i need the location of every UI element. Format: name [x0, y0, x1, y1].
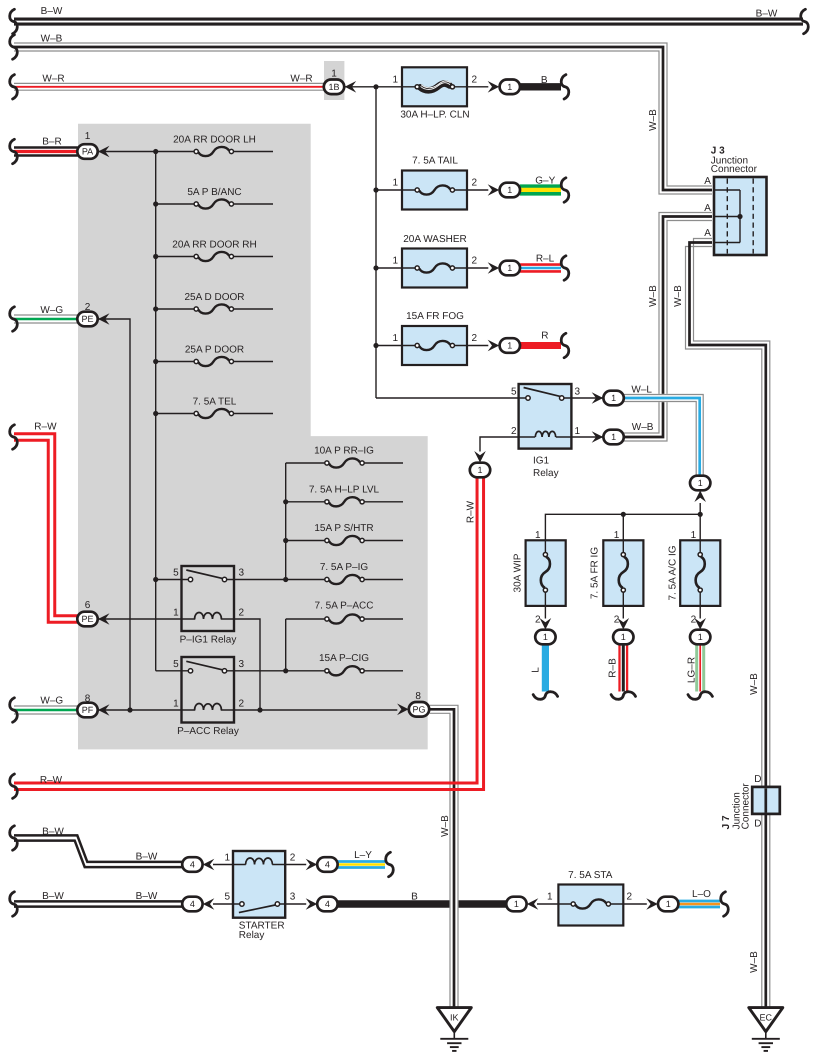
svg-text:7. 5A P–ACC: 7. 5A P–ACC: [315, 601, 374, 612]
ground EC: [749, 1008, 783, 1051]
connector oval PA: [77, 144, 97, 159]
svg-text:W–B: W–B: [673, 285, 684, 307]
arrow into 1B: [345, 81, 357, 93]
connector oval PE 2: [77, 312, 97, 327]
connector oval W-L: [603, 391, 623, 406]
connector oval L: [535, 630, 555, 645]
connector oval LG-R: [690, 630, 710, 645]
svg-text:1: 1: [698, 632, 703, 642]
svg-text:25A D DOOR: 25A D DOOR: [184, 292, 244, 303]
svg-text:15A P S/HTR: 15A P S/HTR: [314, 523, 373, 534]
svg-text:2: 2: [472, 333, 478, 344]
wire B-W into STARTER pin1 (jogged): [14, 835, 182, 867]
svg-text:1: 1: [392, 74, 398, 85]
wire W-L from IG1 pin3 connector down to A-C IG node: [624, 395, 703, 477]
svg-text:L–O: L–O: [692, 889, 711, 900]
svg-text:1: 1: [392, 178, 398, 189]
svg-text:A: A: [704, 203, 711, 214]
P-IG1 relay switch: [186, 570, 223, 579]
svg-text:P–ACC Relay: P–ACC Relay: [177, 726, 239, 737]
wire-end squiggle LG-R: [688, 692, 712, 700]
arrow into A-C IG output connector: [694, 618, 706, 630]
connector ovals 4 right: [317, 857, 337, 872]
gray fuse-panel L-shape: [78, 124, 428, 750]
wire P-ACC pin2 to PG: [221, 709, 398, 711]
wire-end curl B-W left row2: [10, 892, 18, 916]
svg-text:R–W: R–W: [40, 775, 63, 786]
svg-text:W–B: W–B: [440, 815, 451, 837]
STARTER relay switch: [239, 905, 275, 913]
connector oval W-B: [603, 430, 623, 445]
wire-end curl B-R left: [10, 139, 18, 163]
relay box IG1: [519, 384, 572, 449]
svg-text:5: 5: [511, 387, 517, 398]
ground IK: [437, 1008, 471, 1051]
svg-text:1: 1: [507, 263, 512, 273]
wire-end curl B top: [561, 75, 569, 99]
svg-text:4: 4: [190, 899, 195, 909]
svg-text:1: 1: [611, 432, 616, 442]
wire to fuse 20A WASHER: [376, 267, 415, 269]
connector oval L-O: [658, 897, 678, 912]
arrow into PE(2): [98, 313, 110, 325]
wire P-ACC pin3 to fuse 15A P-CIG: [227, 670, 325, 672]
wire W-B run1: top horizontal to J3 pin A1: [14, 43, 712, 194]
fuse symbol 20A WASHER: [415, 263, 454, 272]
wire FR IG pin1: [622, 514, 624, 552]
wire P-IG1 pin5 from bus: [156, 579, 189, 581]
fuse symbol 15A P-CIG: [325, 666, 364, 675]
svg-text:30A WIP: 30A WIP: [513, 553, 524, 592]
IG1 relay coil: [535, 431, 555, 437]
wire row fuse 25A D DOOR: [156, 308, 194, 310]
wire to fuse 7.5A TAIL: [376, 189, 415, 191]
wire R-L (fuse WASHER output): [520, 265, 561, 272]
svg-text:W–R: W–R: [290, 74, 312, 85]
svg-text:PE: PE: [81, 614, 93, 624]
fuse symbol 7.5A FR IG (vertical): [619, 552, 628, 592]
wire P-IG1 pin2 down to PF row: [221, 619, 260, 710]
wire 1B to fuse 30A H-LP. CLN: [345, 86, 416, 88]
svg-text:1: 1: [507, 185, 512, 195]
svg-text:3: 3: [239, 568, 245, 579]
relay box P-IG1: [182, 566, 235, 631]
wire B connector to fuse 7.5A STA: [537, 903, 572, 905]
svg-text:W–B: W–B: [749, 951, 760, 973]
wire B (fuse 30A output, thick black): [520, 83, 561, 90]
svg-text:R: R: [541, 330, 548, 341]
wire row fuse 20A RR DOOR RH: [156, 256, 194, 258]
right column feed bus lower segment: [285, 619, 287, 671]
svg-text:B: B: [541, 75, 548, 86]
svg-text:4: 4: [325, 899, 330, 909]
svg-text:PG: PG: [412, 705, 425, 715]
arrow into PF(8): [98, 704, 110, 716]
wire R-W upper left into PE(6): [14, 434, 78, 623]
svg-text:2: 2: [691, 615, 697, 626]
svg-text:B–W: B–W: [136, 852, 158, 863]
arrow into PG: [397, 704, 409, 716]
wire-end curl W-R left: [10, 75, 18, 99]
svg-text:30A H–LP. CLN: 30A H–LP. CLN: [400, 110, 469, 121]
svg-text:B–W: B–W: [41, 6, 63, 17]
svg-text:PF: PF: [82, 705, 94, 715]
wire B (STARTER pin3 output, thick black): [338, 900, 507, 907]
arrow into R connector: [488, 340, 500, 352]
fuse symbol 7.5A STA: [571, 899, 610, 908]
arrow into W-L lower connector: [694, 491, 706, 503]
wire W-G into PF(8): [14, 706, 78, 714]
P-IG1 relay coil: [195, 613, 222, 619]
svg-text:1: 1: [543, 632, 548, 642]
wire to IG1 relay pin5: [376, 397, 526, 399]
J3 dashed divider left: [726, 179, 728, 254]
wire R-B (FR IG output): [620, 645, 628, 692]
fuse box 20A WASHER: [402, 249, 467, 288]
J3 internal link: [739, 190, 741, 243]
J3 dashed divider right: [752, 179, 754, 254]
svg-text:4: 4: [325, 860, 330, 870]
arrow into B connector (30A CLN): [488, 81, 500, 93]
svg-text:25A P DOOR: 25A P DOOR: [185, 345, 244, 356]
svg-text:1: 1: [477, 465, 482, 475]
svg-text:1: 1: [173, 607, 179, 618]
svg-text:2: 2: [239, 607, 245, 618]
svg-text:Connector: Connector: [741, 783, 752, 830]
connector oval G-Y: [500, 183, 520, 198]
connector oval W-L lower: [690, 476, 710, 491]
arrows into left 4-ovals STARTER: [203, 859, 215, 871]
svg-text:6: 6: [85, 600, 91, 611]
svg-text:7. 5A STA: 7. 5A STA: [568, 870, 613, 881]
wire PE(6) to P-IG1 pin1 coil: [98, 618, 196, 620]
wire PE(2) to PF row: [98, 319, 131, 710]
wire IG1 pin2 to R-W connector: [480, 437, 535, 452]
arrow into PE(6): [98, 613, 110, 625]
horizontal bus above WIP / FR IG / A-C IG fuses: [545, 503, 700, 552]
fuse symbol 5A P B/ANC: [194, 199, 233, 208]
svg-text:7. 5A H–LP LVL: 7. 5A H–LP LVL: [309, 484, 380, 495]
svg-text:1: 1: [85, 131, 91, 142]
connector ovals 4 left: [182, 857, 202, 872]
relay box P-ACC: [182, 657, 235, 723]
wire B-W into STARTER pin5: [14, 901, 182, 906]
wire-end curl R-L: [561, 256, 569, 280]
svg-text:W–B: W–B: [749, 673, 760, 695]
svg-text:7. 5A FR IG: 7. 5A FR IG: [590, 547, 601, 599]
wire-end curl L-Y: [386, 852, 394, 876]
fuse box 15A FR FOG: [402, 326, 467, 365]
svg-text:1: 1: [514, 899, 519, 909]
svg-text:W–B: W–B: [648, 109, 659, 131]
svg-text:1: 1: [173, 699, 179, 710]
svg-text:1: 1: [621, 632, 626, 642]
svg-text:1: 1: [331, 69, 337, 80]
wire B-W top: [14, 19, 803, 24]
connector oval PE 6: [77, 612, 97, 627]
gray panel behind connector 1B: [324, 61, 344, 100]
arrow into B connector bottom: [527, 898, 539, 910]
wire W-G into PE(2): [14, 315, 78, 323]
junction dots WIP bus: [621, 512, 626, 517]
svg-text:PA: PA: [82, 147, 93, 157]
svg-text:B: B: [411, 891, 418, 902]
svg-text:Relay: Relay: [533, 468, 559, 479]
svg-text:R–B: R–B: [608, 658, 619, 678]
wire to fuse 15A FR FOG: [376, 345, 415, 347]
wire-end curl B-W top right: [801, 9, 809, 33]
wire-end curl L-O: [721, 892, 729, 916]
svg-text:5: 5: [224, 892, 230, 903]
wire-end squiggle L: [533, 692, 557, 700]
arrow into R-L connector: [488, 262, 500, 274]
IG1 relay switch: [524, 388, 561, 397]
junction dot P-IG1 pin2/PF row: [257, 707, 262, 712]
connector oval R: [500, 338, 520, 353]
wire A-C IG pin2 to connector: [699, 592, 701, 619]
connector oval 1B: [324, 80, 344, 95]
svg-text:B–W: B–W: [756, 9, 778, 20]
fuse symbol 20A RR DOOR RH: [194, 252, 233, 261]
fuse symbol 7.5A P-IG: [325, 575, 364, 584]
svg-text:PE: PE: [81, 314, 93, 324]
arrow into L-O connector: [646, 898, 658, 910]
svg-text:2: 2: [614, 615, 620, 626]
fuse symbol 20A RR DOOR LH: [194, 147, 233, 156]
wire row fuse 7.5A TEL: [156, 413, 194, 415]
right column feed bus upper segment: [285, 463, 287, 580]
STARTER relay coil: [246, 858, 273, 864]
fuse symbol 30A WIP (vertical): [541, 552, 550, 592]
wire B-R into PA: [14, 148, 78, 156]
fuse symbol 25A D DOOR: [194, 304, 233, 313]
junction dot J3 internal: [737, 214, 742, 219]
svg-text:EC: EC: [760, 1013, 773, 1023]
wire W-B run4: PG connector down to IK ground: [430, 705, 458, 1007]
svg-text:1: 1: [224, 853, 230, 864]
wire PF(8) row to P-ACC coil: [98, 709, 196, 711]
svg-text:2: 2: [239, 699, 245, 710]
svg-text:L–Y: L–Y: [354, 850, 372, 861]
J7 wire stripe overlay: [764, 788, 767, 812]
svg-text:R–W: R–W: [466, 500, 477, 523]
svg-text:W–B: W–B: [41, 34, 63, 45]
fuse box 30A WIP: [526, 540, 566, 606]
svg-text:B–R: B–R: [42, 137, 61, 148]
svg-text:2: 2: [472, 74, 478, 85]
svg-text:20A WASHER: 20A WASHER: [403, 234, 467, 245]
svg-text:B–W: B–W: [42, 827, 64, 838]
svg-text:R–L: R–L: [536, 253, 555, 264]
J3 pin A1 stub: [714, 189, 740, 191]
svg-text:1: 1: [698, 478, 703, 488]
svg-text:1: 1: [392, 333, 398, 344]
wire row fuse 10A P RR-IG: [286, 462, 325, 464]
fuse box 30A H-LP. CLN: [402, 67, 467, 106]
fuse symbol 7.5A P-ACC: [325, 614, 364, 623]
wire WIP pin2 to connector: [544, 592, 546, 619]
wire L-Y (STARTER pin2 output): [338, 862, 386, 868]
wire FR IG pin2 to connector: [622, 592, 624, 619]
svg-text:20A RR DOOR RH: 20A RR DOOR RH: [172, 240, 256, 251]
wire LG-R (A-C IG output): [697, 645, 704, 692]
svg-text:G–Y: G–Y: [535, 176, 555, 187]
wire-end curl W-G left (PF8): [10, 698, 18, 722]
svg-text:2: 2: [511, 426, 517, 437]
svg-text:2: 2: [472, 256, 478, 267]
svg-text:W–B: W–B: [632, 422, 654, 433]
svg-text:D: D: [754, 818, 761, 829]
junction dots fuse panel bus: [153, 149, 158, 154]
svg-text:B–W: B–W: [42, 891, 64, 902]
svg-text:8: 8: [415, 691, 421, 702]
svg-text:5A P B/ANC: 5A P B/ANC: [187, 187, 241, 198]
fuse symbol 7.5A TAIL: [415, 185, 454, 194]
connector oval B bottom: [506, 897, 526, 912]
svg-text:IG1: IG1: [533, 456, 550, 467]
svg-text:W–G: W–G: [40, 696, 63, 707]
wire P-IG1 pin3 to fuse 7.5A P-IG: [227, 579, 325, 581]
svg-text:IK: IK: [450, 1013, 459, 1023]
junction connector J3 box: [714, 177, 767, 255]
wire-end curl W-G left (PE2): [10, 307, 18, 331]
P-ACC relay coil: [195, 704, 222, 710]
svg-text:7. 5A TAIL: 7. 5A TAIL: [412, 156, 458, 167]
svg-text:3: 3: [575, 387, 581, 398]
connector oval PG 8: [409, 702, 429, 717]
svg-text:2: 2: [85, 302, 91, 313]
svg-text:8: 8: [85, 693, 91, 704]
wire-end curl B-W top left: [10, 9, 18, 33]
svg-text:W–R: W–R: [42, 74, 64, 85]
vertical bus from 1B node: [375, 87, 377, 398]
svg-text:7. 5A A/C IG: 7. 5A A/C IG: [668, 545, 679, 600]
fuse symbol 7.5A A/C IG (vertical): [696, 552, 705, 592]
fuse symbol 15A FR FOG: [415, 341, 454, 350]
svg-text:1: 1: [614, 530, 620, 541]
wire row fuse 25A P DOOR: [156, 361, 194, 363]
svg-text:A: A: [704, 228, 711, 239]
connector oval PF 8: [77, 703, 97, 718]
arrow into PA: [98, 146, 110, 158]
svg-text:15A P–CIG: 15A P–CIG: [319, 653, 369, 664]
wire W-B run3: J3 pin A3 down right side to EC ground: [686, 239, 770, 1008]
svg-text:2: 2: [472, 178, 478, 189]
svg-text:B–W: B–W: [136, 891, 158, 902]
svg-text:Connector: Connector: [711, 164, 758, 175]
arrow into WIP output connector: [540, 618, 552, 630]
J3 pin A3 stub: [714, 242, 740, 244]
svg-text:15A FR FOG: 15A FR FOG: [406, 311, 464, 322]
wire row fuse 15A P S/HTR: [286, 540, 325, 542]
arrow into R-W connector: [474, 451, 486, 463]
svg-text:7. 5A TEL: 7. 5A TEL: [193, 397, 237, 408]
svg-text:1: 1: [666, 899, 671, 909]
junction dots 1B feed bus: [373, 84, 378, 89]
svg-text:1: 1: [547, 892, 553, 903]
svg-text:2: 2: [627, 892, 633, 903]
svg-text:7. 5A P–IG: 7. 5A P–IG: [320, 562, 369, 573]
fuse symbol 10A P RR-IG: [325, 458, 364, 467]
wire row fuse 7.5A H-LP LVL: [286, 501, 325, 503]
relay box STARTER: [233, 851, 285, 918]
wire-end curl G-Y: [561, 178, 569, 202]
wire R-W bottom: from page edge up to IG1 pin2 connector: [14, 478, 484, 790]
svg-text:4: 4: [190, 860, 195, 870]
svg-text:1: 1: [507, 341, 512, 351]
fuse box 7.5A A/C IG: [680, 540, 720, 606]
svg-text:1: 1: [535, 530, 541, 541]
svg-text:1: 1: [611, 393, 616, 403]
svg-text:Relay: Relay: [239, 930, 265, 941]
svg-text:1B: 1B: [328, 82, 339, 92]
wire W-B run2: IG1 pin1 connector up to J3 pin A2: [624, 213, 712, 442]
wire-end squiggle R-B: [611, 692, 635, 700]
wire W-R into 1B: [14, 83, 324, 90]
wire-end curl R-W left upper: [10, 425, 18, 449]
junction dot PE2/PF row: [127, 707, 132, 712]
svg-text:10A P RR–IG: 10A P RR–IG: [314, 446, 374, 457]
J3 pin A2 stub: [714, 216, 740, 218]
svg-text:L: L: [531, 667, 542, 673]
svg-text:J 7: J 7: [721, 815, 732, 829]
fuse symbol 15A P S/HTR: [325, 536, 364, 545]
svg-text:P–IG1 Relay: P–IG1 Relay: [180, 635, 237, 646]
svg-text:W–B: W–B: [648, 285, 659, 307]
svg-text:1: 1: [575, 426, 581, 437]
connector oval R-B: [613, 630, 633, 645]
wire IG1 pin1 to W-B connector: [556, 436, 603, 438]
svg-text:3: 3: [239, 659, 245, 670]
wire STARTER pin5: [213, 903, 240, 905]
wire L (WIP output, solid blue): [542, 645, 549, 692]
wire row fuse 7.5A P-ACC: [286, 618, 325, 620]
wire G-Y (fuse TAIL output): [520, 186, 561, 194]
P-ACC relay switch: [186, 661, 223, 670]
svg-text:20A RR DOOR LH: 20A RR DOOR LH: [173, 135, 256, 146]
svg-text:LG–R: LG–R: [687, 657, 698, 683]
junction dots right fuse bus: [283, 499, 288, 504]
svg-text:2: 2: [535, 615, 541, 626]
svg-text:1: 1: [691, 530, 697, 541]
svg-text:1: 1: [507, 82, 512, 92]
fuse box 7.5A FR IG: [603, 540, 643, 606]
wire L-O (STA fuse output): [678, 901, 720, 907]
connector oval B top: [500, 80, 520, 95]
wire STARTER pin1: [213, 864, 246, 866]
wire R (fuse FR FOG output, solid red): [520, 342, 561, 349]
arrows into right 4-ovals STARTER: [306, 859, 318, 871]
svg-text:D: D: [754, 774, 761, 785]
svg-text:W–G: W–G: [40, 305, 63, 316]
svg-text:A: A: [704, 176, 711, 187]
connector oval R-W: [470, 463, 490, 478]
fuse symbol 25A P DOOR: [194, 357, 233, 366]
arrow into W-L connector: [592, 392, 604, 404]
arrow into W-B connector: [592, 431, 604, 443]
svg-text:5: 5: [173, 568, 179, 579]
svg-text:R–W: R–W: [34, 422, 57, 433]
wire P-ACC pin5 from bus: [156, 670, 189, 672]
wire row fuse 5A P B/ANC: [156, 203, 194, 205]
svg-text:5: 5: [173, 659, 179, 670]
connector oval R-L: [500, 261, 520, 276]
arrow into FR IG output connector: [618, 618, 630, 630]
wire STARTER pin3: [280, 903, 307, 905]
fuse element 30A H-LP. CLN (thick): [420, 84, 449, 91]
junction connector J7 box: [752, 787, 780, 814]
svg-text:2: 2: [290, 853, 296, 864]
